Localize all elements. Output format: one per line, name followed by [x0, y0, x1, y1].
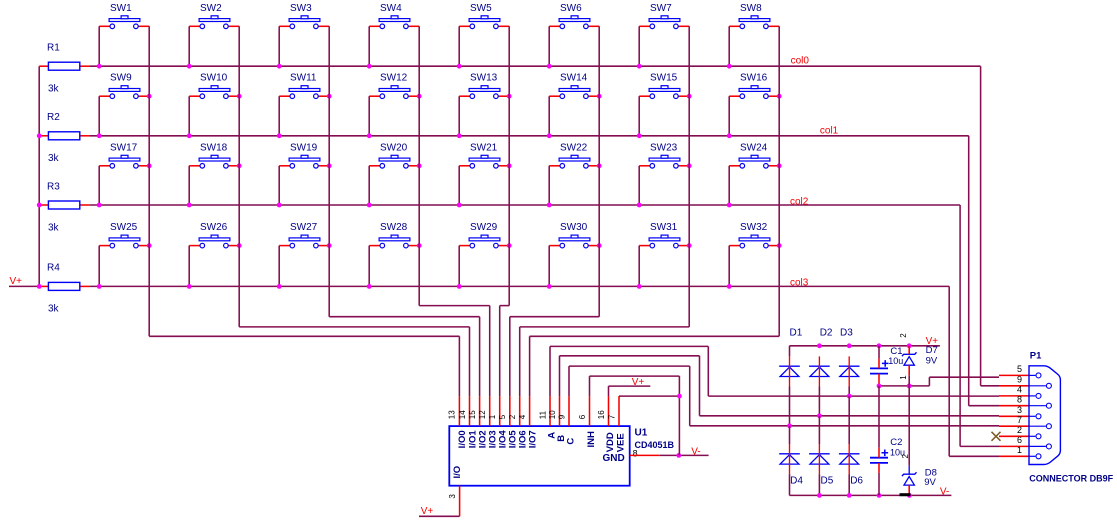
svg-text:3: 3 [1017, 405, 1022, 415]
svg-text:SW10: SW10 [200, 73, 228, 84]
svg-text:SW4: SW4 [380, 3, 402, 14]
svg-text:CONNECTOR DB9F: CONNECTOR DB9F [1029, 473, 1113, 483]
svg-text:2: 2 [1017, 425, 1022, 435]
svg-text:R1: R1 [47, 43, 60, 54]
svg-text:SW9: SW9 [110, 73, 132, 84]
svg-text:SW14: SW14 [560, 73, 588, 84]
svg-text:16: 16 [597, 410, 606, 419]
svg-text:SW3: SW3 [290, 3, 312, 14]
svg-text:D5: D5 [821, 476, 834, 487]
svg-text:C: C [566, 438, 577, 445]
svg-text:SW30: SW30 [560, 222, 588, 233]
svg-text:I/O7: I/O7 [527, 430, 538, 448]
svg-text:1: 1 [899, 375, 908, 380]
svg-text:SW1: SW1 [110, 3, 132, 14]
svg-text:col1: col1 [820, 126, 839, 137]
svg-text:4: 4 [518, 414, 527, 419]
svg-text:7: 7 [607, 414, 616, 419]
svg-text:14: 14 [458, 410, 467, 419]
svg-text:SW20: SW20 [380, 142, 408, 153]
svg-text:CD4051B: CD4051B [635, 440, 675, 450]
svg-text:V+: V+ [632, 377, 645, 388]
svg-text:SW12: SW12 [380, 73, 408, 84]
svg-text:7: 7 [1017, 415, 1022, 425]
svg-text:8: 8 [633, 448, 638, 458]
svg-text:SW26: SW26 [200, 222, 228, 233]
svg-text:9V: 9V [926, 355, 938, 366]
svg-text:11: 11 [538, 410, 547, 419]
svg-text:D1: D1 [790, 328, 803, 339]
svg-text:SW11: SW11 [290, 73, 317, 84]
svg-text:U1: U1 [635, 428, 648, 439]
svg-text:1: 1 [1017, 445, 1022, 455]
svg-text:SW23: SW23 [650, 142, 678, 153]
svg-text:5: 5 [1017, 364, 1022, 374]
svg-text:SW25: SW25 [110, 222, 138, 233]
svg-text:col0: col0 [791, 56, 810, 67]
svg-text:6: 6 [1017, 435, 1022, 445]
svg-text:12: 12 [478, 410, 487, 419]
svg-text:SW7: SW7 [650, 3, 672, 14]
svg-text:SW5: SW5 [470, 3, 492, 14]
svg-text:SW18: SW18 [200, 142, 228, 153]
svg-text:SW22: SW22 [560, 142, 588, 153]
svg-text:13: 13 [448, 410, 457, 419]
svg-text:SW21: SW21 [470, 142, 498, 153]
svg-text:GND: GND [603, 453, 625, 464]
svg-text:2: 2 [899, 333, 908, 338]
svg-text:SW16: SW16 [740, 73, 768, 84]
svg-text:R4: R4 [47, 263, 60, 274]
svg-text:SW32: SW32 [740, 222, 768, 233]
svg-text:SW8: SW8 [740, 3, 762, 14]
svg-text:D7: D7 [926, 345, 938, 356]
svg-text:SW15: SW15 [650, 73, 678, 84]
svg-text:SW31: SW31 [650, 222, 678, 233]
svg-text:SW19: SW19 [290, 142, 318, 153]
svg-text:6: 6 [578, 414, 587, 419]
svg-text:SW17: SW17 [110, 142, 138, 153]
svg-text:D3: D3 [840, 328, 853, 339]
svg-text:D2: D2 [820, 328, 833, 339]
svg-text:D4: D4 [790, 476, 803, 487]
svg-text:SW29: SW29 [470, 222, 498, 233]
svg-text:C2: C2 [890, 437, 902, 448]
svg-text:V+: V+ [421, 506, 434, 517]
svg-text:9V: 9V [924, 477, 936, 488]
svg-text:1: 1 [488, 414, 497, 419]
svg-text:P1: P1 [1030, 350, 1042, 361]
svg-text:3k: 3k [48, 84, 60, 95]
svg-text:15: 15 [468, 410, 477, 419]
svg-text:R2: R2 [47, 112, 60, 123]
svg-text:SW28: SW28 [380, 222, 408, 233]
svg-text:D6: D6 [850, 476, 863, 487]
svg-text:SW27: SW27 [290, 222, 318, 233]
svg-text:10: 10 [548, 410, 557, 419]
svg-text:V+: V+ [10, 276, 23, 287]
svg-text:R3: R3 [47, 181, 60, 192]
svg-text:5: 5 [498, 414, 507, 419]
svg-text:I/O: I/O [452, 466, 463, 479]
svg-text:10u: 10u [888, 356, 903, 366]
svg-text:4: 4 [1017, 385, 1022, 395]
svg-text:9: 9 [557, 414, 566, 419]
svg-text:3k: 3k [48, 222, 60, 233]
svg-text:VDD: VDD [605, 432, 616, 452]
svg-text:SW13: SW13 [470, 73, 498, 84]
svg-text:8: 8 [1017, 394, 1022, 404]
svg-text:VEE: VEE [616, 433, 627, 452]
svg-text:3: 3 [448, 494, 457, 499]
svg-text:V-: V- [940, 487, 949, 498]
svg-text:SW6: SW6 [560, 3, 582, 14]
svg-text:3k: 3k [48, 153, 60, 164]
svg-text:2: 2 [508, 414, 517, 419]
svg-text:V-: V- [691, 447, 700, 458]
svg-text:SW2: SW2 [200, 3, 222, 14]
svg-text:col2: col2 [790, 197, 809, 208]
svg-text:SW24: SW24 [740, 142, 768, 153]
svg-text:3k: 3k [48, 304, 60, 315]
svg-text:2: 2 [901, 454, 910, 459]
svg-text:col3: col3 [790, 277, 809, 288]
svg-text:INH: INH [586, 431, 597, 448]
svg-text:9: 9 [1017, 375, 1022, 385]
